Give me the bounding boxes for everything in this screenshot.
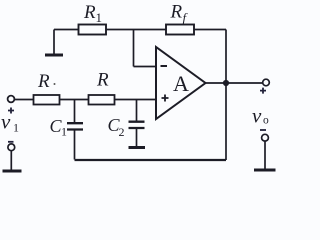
output terminal (top): [263, 79, 270, 86]
wire: feedback vertical x=226: [225, 30, 227, 161]
svg-text:R: R: [96, 70, 109, 91]
output terminal (bottom): [262, 134, 269, 141]
wire: top rail left segment (R1 left to ground corner): [54, 29, 79, 31]
minus sign (output): [260, 129, 266, 131]
wire: between the two R resistors: [60, 99, 89, 101]
wire: top rail right segment (Rf right to feedback corner): [194, 29, 226, 31]
wire: C2 top lead: [136, 100, 138, 122]
wire: second R to op-amp plus input: [115, 99, 157, 101]
ground (output): [254, 169, 276, 172]
wire: top rail middle segment (R1 right to Rf left): [106, 29, 166, 31]
svg-text:v: v: [252, 104, 262, 128]
resistor R1: [79, 25, 107, 35]
resistor R (second): [89, 95, 115, 105]
svg-text:R: R: [170, 2, 183, 23]
resistor R (first): [34, 95, 60, 105]
minus sign (input): [8, 141, 14, 143]
wire: ground stub vertical at x=54: [53, 30, 55, 55]
wire: C2 bottom lead: [136, 129, 138, 147]
wire: inverting input horizontal: [134, 66, 157, 68]
wire: op-amp output to output terminal: [206, 82, 263, 84]
op-amp minus marker: [161, 65, 168, 67]
svg-text:o: o: [263, 115, 269, 127]
capacitor C1 plates: [67, 123, 83, 129]
op-amp plus marker: [162, 95, 169, 102]
svg-text:1: 1: [13, 121, 19, 135]
op-amp U1 triangle: [156, 47, 206, 119]
wire: C1 top lead: [74, 100, 76, 123]
svg-text:v: v: [1, 110, 11, 134]
wire: bottom feedback rail: [75, 159, 227, 161]
svg-text:A: A: [173, 71, 189, 96]
wire: inverting tap vertical x=133.5: [133, 30, 135, 67]
wire: C1 bottom lead: [74, 130, 76, 160]
svg-text:1: 1: [61, 125, 67, 139]
ground (under R1 left): [45, 54, 63, 57]
wire: lower output terminal to ground: [264, 141, 266, 169]
wire: input terminal to first R: [14, 99, 33, 101]
input terminal (bottom): [8, 144, 15, 151]
stray dot after first R label: [54, 83, 56, 85]
plus sign (input): [8, 108, 14, 114]
svg-text:R: R: [37, 71, 50, 92]
plus sign (output): [260, 88, 266, 94]
svg-text:1: 1: [96, 10, 103, 25]
svg-text:R: R: [83, 2, 96, 23]
svg-text:2: 2: [119, 125, 125, 139]
resistor Rf: [166, 25, 194, 35]
node: output junction dot: [223, 80, 229, 86]
input terminal (top): [8, 96, 15, 103]
ground (C2): [129, 146, 146, 149]
wire: lower input terminal to ground: [10, 151, 12, 171]
ground (input): [3, 170, 22, 173]
capacitor C2 plates: [129, 122, 145, 128]
